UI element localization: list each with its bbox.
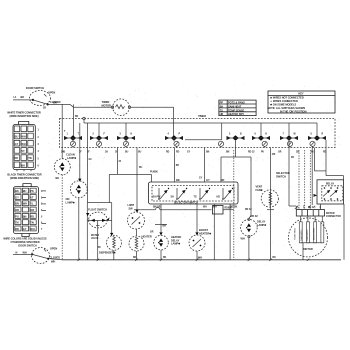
- svg-text:SH PW: SH PW: [153, 195, 162, 198]
- wire bottom rail: [48, 204, 344, 260]
- svg-text:WH: WH: [51, 259, 55, 263]
- svg-text:OR: OR: [15, 208, 19, 212]
- svg-text:HEATED DRY: HEATED DRY: [228, 112, 244, 116]
- svg-text:LAMP✱: LAMP✱: [67, 156, 77, 160]
- svg-text:TS: TS: [220, 108, 224, 112]
- svg-text:OPEN: OPEN: [50, 247, 57, 251]
- svg-text:PU: PU: [261, 152, 265, 154]
- svg-text:RD/BK: RD/BK: [225, 207, 233, 209]
- black timer connector: [7, 173, 41, 237]
- svg-text:VT: VT: [30, 195, 34, 199]
- svg-text:DRAIN WDG: DRAIN WDG: [313, 227, 316, 240]
- clean lamp: [54, 153, 77, 180]
- wire timer motor line: [73, 107, 173, 136]
- wires below selector to rail: [214, 204, 230, 260]
- wire dotted on-some-models: [233, 150, 235, 260]
- wire L1 lead: [13, 94, 49, 110]
- detergent dispenser coil: [129, 229, 152, 260]
- svg-text:MOTOR: MOTOR: [303, 247, 313, 251]
- svg-text:BN: BN: [206, 152, 210, 154]
- svg-text:PP: PP: [220, 101, 224, 105]
- svg-text:BK: BK: [53, 101, 57, 105]
- black connector pin stubs: [42, 191, 47, 224]
- svg-text:2B: 2B: [43, 108, 46, 110]
- door switch (top, L1 side) label: [26, 86, 61, 104]
- svg-text:MAIN WDG: MAIN WDG: [300, 229, 303, 240]
- svg-text:BU: BU: [125, 152, 129, 154]
- relay: [314, 180, 344, 204]
- svg-text:RD: RD: [15, 227, 19, 231]
- svg-text:YL: YL: [30, 202, 34, 206]
- svg-text:WH: WH: [213, 207, 217, 209]
- wire arrowheads into components: [78, 179, 199, 236]
- svg-text:OR: OR: [221, 178, 225, 182]
- wire drops from bus: [99, 123, 344, 180]
- svg-text:TIMER: TIMER: [198, 114, 206, 118]
- svg-text:OPEN: OPEN: [48, 91, 55, 95]
- svg-text:HD: HD: [217, 195, 221, 198]
- svg-text:BK: BK: [176, 165, 180, 167]
- svg-text:OR: OR: [278, 152, 282, 154]
- svg-text:(WIRE INSERTION SIDE): (WIRE INSERTION SIDE): [9, 114, 38, 118]
- svg-text:BU: BU: [139, 167, 143, 169]
- selector switch right label: [276, 171, 290, 178]
- svg-text:LAMP✱: LAMP✱: [257, 223, 267, 227]
- svg-text:BK: BK: [133, 257, 137, 259]
- note wire colors: [3, 237, 46, 244]
- svg-text:BU: BU: [23, 189, 27, 193]
- svg-text:GY: GY: [23, 227, 27, 231]
- wires below selector: [153, 204, 238, 224]
- svg-text:⊕ WIRES NOT CONNECTED: ⊕ WIRES NOT CONNECTED: [270, 96, 304, 100]
- svg-text:GY: GY: [187, 152, 191, 154]
- svg-text:BU: BU: [138, 152, 142, 154]
- svg-text:PU/BK: PU/BK: [150, 170, 158, 174]
- svg-text:RD 32: RD 32: [248, 152, 255, 154]
- svg-text:DOOR SWITCH: DOOR SWITCH: [26, 86, 44, 90]
- svg-text:LAMP✱: LAMP✱: [171, 242, 181, 246]
- svg-text:BK: BK: [56, 176, 60, 180]
- svg-text:N: N: [16, 251, 18, 255]
- svg-text:GY: GY: [15, 195, 19, 199]
- svg-text:⊥ WIRES CONNECTED: ⊥ WIRES CONNECTED: [270, 99, 298, 103]
- limit switch: [128, 148, 145, 230]
- svg-text:WH: WH: [203, 206, 207, 208]
- svg-text:OR: OR: [272, 154, 276, 156]
- svg-text:RD: RD: [176, 152, 180, 154]
- white timer connector: [7, 111, 41, 172]
- svg-text:CLOSED: CLOSED: [50, 256, 61, 260]
- black connector pin numbers: [41, 191, 43, 231]
- key box: [268, 91, 336, 113]
- scattered wire color labels: [64, 116, 294, 259]
- svg-text:WH: WH: [21, 135, 25, 139]
- svg-text:WATER: WATER: [91, 234, 99, 237]
- svg-text:BK: BK: [98, 247, 102, 249]
- svg-text:VALVE: VALVE: [91, 237, 99, 240]
- svg-text:WHITE TIMER CONNECTOR: WHITE TIMER CONNECTOR: [7, 111, 41, 115]
- wire limit line: [134, 207, 212, 209]
- wire relay feed: [308, 148, 326, 210]
- svg-text:TN: TN: [28, 156, 32, 160]
- rail junction marks: [78, 257, 310, 261]
- delay lamp: [241, 214, 268, 260]
- wire door feed down to contact row: [72, 104, 74, 136]
- svg-text:WH: WH: [21, 142, 25, 146]
- svg-text:FAN✱: FAN✱: [256, 188, 264, 192]
- scan speckle layer: [10, 84, 341, 267]
- svg-text:HD: HD: [220, 112, 224, 116]
- wires to motor connector: [0, 0, 310, 209]
- svg-text:SELECTOR: SELECTOR: [276, 171, 290, 175]
- svg-text:BK: BK: [273, 257, 277, 259]
- svg-text:POTS & PANS: POTS & PANS: [228, 101, 245, 105]
- black connector grid cells: [15, 188, 36, 231]
- svg-text:WH: WH: [198, 255, 202, 259]
- inline connector box: [213, 206, 234, 215]
- svg-text:MOTOR: MOTOR: [102, 103, 112, 107]
- timer motor: [102, 99, 131, 116]
- door switch (top) dashed circle: [30, 91, 51, 106]
- wire left rail down from door switch: [61, 104, 63, 158]
- svg-text:RELAY: RELAY: [326, 182, 335, 186]
- white connector pin numbers: [38, 130, 40, 168]
- svg-text:WH: WH: [23, 202, 27, 206]
- svg-text:PK: PK: [15, 156, 19, 160]
- wires into selector top: [175, 148, 225, 183]
- float switch: [87, 123, 111, 260]
- svg-text:WH: WH: [30, 227, 34, 231]
- on lamp: [66, 123, 88, 260]
- svg-text:OR: OR: [150, 232, 154, 234]
- svg-text:BN: BN: [23, 214, 27, 218]
- svg-text:MAIN WDG: MAIN WDG: [306, 229, 309, 240]
- svg-text:WH: WH: [23, 251, 27, 255]
- heated delay lamp: [150, 224, 181, 260]
- selector switch box: [149, 182, 239, 204]
- motor connector: [296, 205, 341, 218]
- svg-text:OR: OR: [30, 208, 34, 212]
- svg-text:VT: VT: [21, 149, 25, 153]
- svg-text:GY: GY: [15, 142, 19, 146]
- svg-text:TN: TN: [15, 221, 19, 225]
- door switch (bottom, N side): [13, 243, 60, 263]
- svg-text:SH: SH: [220, 104, 224, 108]
- svg-text:MOTOR: MOTOR: [326, 213, 335, 215]
- wire BK from door switch to timer: [48, 101, 74, 108]
- svg-text:SANI HEAT: SANI HEAT: [228, 104, 242, 108]
- svg-text:3B: 3B: [291, 157, 294, 159]
- svg-text:BK: BK: [163, 257, 167, 259]
- svg-text:BK: BK: [176, 178, 180, 182]
- svg-text:✱ ON SOME MODELS: ✱ ON SOME MODELS: [270, 103, 296, 107]
- svg-text:24B: 24B: [61, 151, 66, 154]
- motor: [289, 216, 328, 260]
- svg-text:RD: RD: [30, 214, 34, 218]
- svg-text:GY: GY: [199, 178, 203, 180]
- white connector grid cells: [14, 126, 33, 168]
- svg-text:2H: 2H: [89, 159, 92, 161]
- water valve: [91, 234, 122, 260]
- wire below clean lamp: [61, 175, 63, 260]
- thermostat / boost heater: [189, 204, 212, 260]
- svg-text:RD 32: RD 32: [251, 214, 259, 218]
- svg-text:BK: BK: [21, 95, 25, 99]
- timer cam switches row: [61, 123, 327, 154]
- svg-text:BN: BN: [15, 202, 19, 206]
- svg-text:HEATER✱: HEATER✱: [199, 231, 212, 235]
- svg-text:SW: SW: [129, 206, 134, 210]
- svg-text:DOOR SWITCH: DOOR SWITCH: [18, 243, 36, 247]
- legend table: [219, 100, 256, 116]
- svg-text:PK: PK: [30, 189, 34, 193]
- svg-text:BU: BU: [15, 135, 19, 139]
- wire PU/BK to selector: [109, 148, 158, 203]
- svg-text:PU: PU: [311, 152, 315, 154]
- svg-text:PU: PU: [15, 214, 19, 218]
- svg-text:BN: BN: [226, 152, 230, 154]
- svg-text:BK: BK: [21, 163, 25, 167]
- svg-text:WIRE COLORS ARE SOLID UNLESS: WIRE COLORS ARE SOLID UNLESS: [3, 237, 46, 241]
- svg-text:CONNECTOR: CONNECTOR: [326, 216, 341, 218]
- svg-text:GY: GY: [206, 178, 210, 182]
- svg-text:BLACK TIMER CONNECTOR: BLACK TIMER CONNECTOR: [7, 173, 41, 177]
- svg-text:RD: RD: [166, 152, 170, 154]
- svg-text:HEATER: HEATER: [142, 235, 152, 239]
- svg-text:TS: TS: [194, 195, 197, 198]
- svg-text:WH: WH: [241, 236, 245, 240]
- wire horizontal to selector right: [221, 141, 251, 218]
- timer dashed box: [60, 114, 336, 148]
- svg-text:SH: SH: [171, 195, 175, 198]
- svg-text:IN THE 'ON' POSITION: IN THE 'ON' POSITION: [280, 109, 307, 113]
- svg-text:SELECTOR SWITCH: SELECTOR SWITCH: [174, 200, 198, 204]
- node on timer box top: [83, 117, 85, 119]
- svg-text:TEMP SENSE: TEMP SENSE: [228, 108, 244, 112]
- selector switch arms: [153, 188, 234, 200]
- wire top bus: [84, 120, 317, 123]
- svg-text:SWITCH: SWITCH: [276, 174, 286, 178]
- svg-text:RD 32: RD 32: [245, 209, 252, 211]
- svg-text:BK: BK: [15, 189, 19, 193]
- svg-text:LAMP✱: LAMP✱: [66, 200, 76, 204]
- vent fan: [256, 148, 279, 260]
